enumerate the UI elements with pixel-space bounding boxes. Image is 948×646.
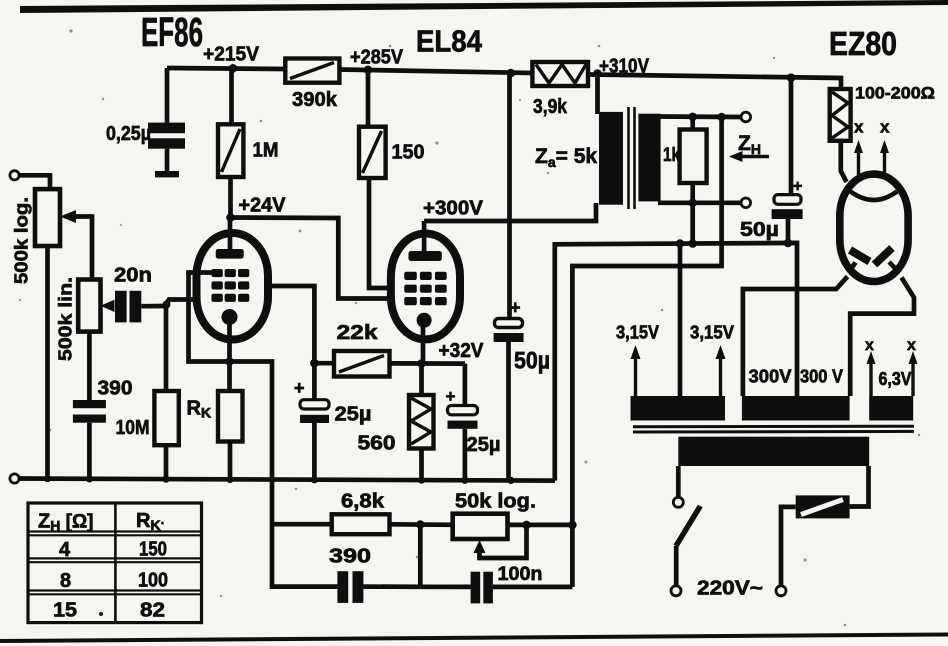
- wire EZ80 right anode to 300V winding: [850, 278, 914, 397]
- svg-text:100n: 100n: [498, 564, 543, 585]
- wire EZ80 left anode to 300V winding: [743, 277, 848, 397]
- capacitor 0,25µ: [106, 68, 185, 177]
- svg-text:3,9k: 3,9k: [533, 96, 568, 118]
- wire 20n to EF86 grid1: [141, 300, 200, 307]
- speaker terminal lower: [741, 198, 751, 208]
- svg-text:25µ: 25µ: [467, 434, 501, 456]
- resistor 22k: [314, 322, 465, 377]
- mains transformer heater winding 2x3,15V: [631, 396, 726, 421]
- resistor 150 (EL84 g2): [359, 70, 425, 178]
- resistor 100-200 ohm (EZ80 surge): [830, 84, 935, 183]
- svg-text:220V~: 220V~: [697, 578, 763, 600]
- svg-text:+300V: +300V: [423, 198, 484, 220]
- node 50µ return on ground bus: [784, 239, 793, 248]
- svg-text:x: x: [880, 118, 890, 137]
- tube EL84 anode plate: [409, 251, 442, 261]
- mains transformer 6,3V winding: [869, 396, 913, 421]
- svg-text:150: 150: [392, 142, 425, 164]
- svg-text:+215V: +215V: [203, 44, 260, 66]
- tube EZ80 envelope: [840, 174, 908, 281]
- wire 150 to EL84 grid2: [369, 178, 392, 288]
- svg-text:3,15V: 3,15V: [690, 323, 734, 343]
- wire primary to mains switch: [676, 466, 681, 497]
- node heater CT on ground bus: [676, 239, 685, 248]
- wire heater centre tap: [678, 244, 683, 396]
- wire ground bus: [555, 243, 797, 481]
- node 50µ on +285V rail: [507, 69, 516, 78]
- junction dots on chassis rail: [44, 475, 515, 484]
- svg-text:+: +: [294, 378, 305, 398]
- svg-text:Za= 5k: Za= 5k: [535, 145, 597, 170]
- wire EF86 anode lead: [228, 217, 233, 251]
- svg-text:+310V: +310V: [599, 56, 650, 78]
- resistor 1M: [218, 68, 279, 217]
- svg-text:390k: 390k: [292, 89, 338, 111]
- node +285V: [364, 66, 373, 75]
- svg-text:500k log.: 500k log.: [11, 197, 32, 284]
- svg-text:560: 560: [358, 433, 396, 455]
- resistor RK (EF86 cathode): [187, 391, 243, 480]
- wire NFB branch to 6,8k: [272, 522, 332, 527]
- wire 10M top lead: [164, 306, 169, 391]
- tube EL84 envelope: [391, 234, 460, 340]
- node grid1 / 10M junction: [163, 301, 171, 309]
- 6,3V arrow left with x: [865, 337, 876, 396]
- wire EL84 anode to output transformer primary: [424, 203, 596, 221]
- wire 50k right to NFB line: [508, 523, 573, 528]
- capacitor 25µ (EL84 cathode): [446, 364, 501, 481]
- svg-text:x: x: [854, 118, 864, 137]
- table column divider: [114, 503, 117, 623]
- svg-text:390: 390: [329, 546, 371, 568]
- svg-text:22k: 22k: [337, 322, 379, 344]
- svg-text:150: 150: [139, 539, 167, 561]
- svg-text:+: +: [793, 178, 802, 195]
- svg-text:100-200Ω: 100-200Ω: [855, 84, 935, 103]
- fuse: [796, 495, 850, 518]
- node 1k top: [688, 113, 697, 122]
- tube EZ80 right anode: [875, 248, 900, 273]
- resistor 3,9k: [532, 62, 588, 118]
- svg-text:x: x: [865, 337, 874, 354]
- svg-text:300 V: 300 V: [800, 366, 844, 387]
- tube EL84 cathode: [417, 313, 432, 328]
- node EL84 cathode / 22k: [417, 359, 426, 368]
- OT core lines: [627, 107, 630, 209]
- capacitor 20n: [114, 265, 152, 323]
- wire OT secondary bottom to speaker terminal: [658, 200, 742, 205]
- node NFB takeoff: [717, 113, 726, 122]
- wire HT rail +285V segment: [339, 70, 533, 74]
- svg-text:6,3V: 6,3V: [879, 369, 912, 389]
- node NFB / 50k: [568, 521, 577, 530]
- mains transformer primary winding: [678, 437, 869, 466]
- node +24V: [226, 213, 235, 222]
- wire EF86 screen lead: [264, 286, 314, 363]
- tube EF86 envelope: [197, 233, 269, 340]
- wire NFB to EF86 cathode: [230, 362, 338, 587]
- svg-text:500k lin.: 500k lin.: [55, 277, 76, 361]
- tube EL84 grid dashes: [404, 272, 446, 305]
- node OT primary top: [593, 69, 602, 78]
- svg-text:300V: 300V: [749, 366, 793, 387]
- node EF86 screen / 22k / 25µ: [310, 359, 319, 368]
- svg-text:50k log.: 50k log.: [455, 491, 536, 513]
- wire OT secondary top to speaker terminal: [658, 114, 742, 119]
- svg-text:+24V: +24V: [239, 195, 287, 217]
- svg-text:EF86: EF86: [141, 9, 203, 55]
- node 6,8k / 50k junction: [416, 520, 425, 529]
- wire EL84 cathode lead: [422, 327, 424, 395]
- resistor 10M: [116, 391, 179, 479]
- tube EF86 grid dashes: [212, 269, 250, 302]
- resistor 1k (across secondary): [663, 117, 707, 203]
- 3,15V arrow right: [690, 323, 734, 397]
- tube EF86 cathode: [222, 309, 238, 325]
- svg-text:390: 390: [98, 378, 133, 400]
- svg-text:6,8k: 6,8k: [341, 491, 385, 513]
- potentiometer 500k log: [11, 189, 93, 284]
- svg-text:1k: 1k: [663, 145, 680, 166]
- svg-text:10M: 10M: [116, 417, 150, 439]
- capacitor 390 (input): [73, 332, 133, 479]
- wire EF86 anode to EL84 grid1: [231, 218, 393, 299]
- svg-text:25µ: 25µ: [335, 404, 372, 426]
- potentiometer 50k log: [453, 491, 536, 559]
- svg-text:1M: 1M: [253, 140, 279, 162]
- svg-text:+: +: [510, 298, 521, 318]
- OT secondary winding bar: [638, 114, 660, 202]
- wire primary to fuse: [850, 466, 869, 507]
- mains terminal right: [776, 586, 786, 596]
- svg-text:20n: 20n: [114, 265, 152, 287]
- capacitor 390 (NFB): [329, 546, 420, 603]
- svg-text:82: 82: [140, 600, 165, 622]
- capacitor 50µ (+310V reservoir): [740, 78, 803, 243]
- label ZH with arrow: [729, 132, 769, 162]
- wire fuse to mains terminal: [781, 507, 796, 586]
- table row lines (doubled): [28, 530, 202, 532]
- node +215V: [229, 64, 238, 73]
- wire input to volume pot: [20, 175, 51, 189]
- input terminal lower: [10, 474, 19, 483]
- svg-text:50µ: 50µ: [740, 219, 779, 241]
- tube EF86 anode plate: [216, 249, 244, 259]
- tube EZ80 cathode arc: [851, 192, 898, 201]
- wire 390 cap up to 6,8k node: [418, 525, 423, 587]
- 6,3V arrow right with x: [907, 337, 918, 396]
- wire NFB from secondary down to tone network: [572, 117, 721, 587]
- wire EL84 anode lead: [422, 221, 427, 253]
- output transformer Za=5k: [535, 107, 661, 209]
- mains transformer HT winding 2x300V: [742, 396, 850, 421]
- svg-text:+285V: +285V: [350, 47, 404, 69]
- tube EZ80 left anode: [849, 250, 870, 273]
- svg-text:+: +: [446, 387, 456, 406]
- node 1k return on ground bus: [688, 239, 697, 248]
- wire OT primary top to +310V rail: [595, 74, 600, 115]
- resistor 6,8k: [332, 491, 453, 535]
- svg-text:ZH [Ω]: ZH [Ω]: [38, 511, 94, 534]
- node EF86 cathode: [225, 357, 234, 366]
- 3,15V arrow left: [616, 323, 659, 397]
- wire HT rail +310V segment: [588, 75, 841, 90]
- resistor 390k: [285, 59, 339, 112]
- wire HT rail +215V segment: [167, 68, 286, 69]
- svg-text:4: 4: [59, 539, 71, 561]
- svg-text:8: 8: [60, 570, 71, 592]
- wire 500k log bottom to chassis rail: [45, 246, 50, 479]
- svg-text:RK: RK: [187, 398, 212, 421]
- wire 1k bottom to ground bus: [690, 203, 695, 244]
- svg-text:15: 15: [53, 600, 77, 622]
- capacitor 25µ (EF86 screen): [294, 363, 372, 480]
- svg-text:50µ: 50µ: [514, 348, 550, 375]
- input terminal upper: [10, 171, 19, 180]
- svg-text:+32V: +32V: [439, 340, 485, 362]
- svg-text:EL84: EL84: [416, 24, 483, 59]
- speaker terminal upper: [741, 112, 751, 122]
- table ZH/RK outer frame: [28, 503, 202, 623]
- wire EF86 suppressor to cathode loop: [189, 273, 231, 362]
- capacitor 100n: [420, 564, 572, 603]
- resistor 560 (EL84 cathode): [358, 395, 434, 480]
- mains transformer core: [633, 426, 914, 432]
- svg-text:EZ80: EZ80: [829, 25, 897, 62]
- capacitor 50µ (+285V reservoir): [494, 73, 550, 480]
- node 50k wiper tie: [522, 521, 531, 530]
- svg-text:RK.: RK.: [136, 510, 164, 533]
- wire chassis rail: [15, 479, 555, 481]
- node 1k bottom: [688, 199, 697, 208]
- OT primary winding bar: [599, 112, 623, 205]
- svg-text:3,15V: 3,15V: [616, 323, 659, 343]
- svg-text:100: 100: [138, 570, 168, 592]
- wire EF86 cathode lead: [227, 323, 232, 391]
- node 50µ on +310V rail: [787, 73, 796, 82]
- EZ80 heater leads with x marks: [854, 118, 890, 179]
- potentiometer 500k lin: [55, 277, 115, 361]
- mains switch: [671, 497, 700, 596]
- svg-text:x: x: [907, 337, 916, 354]
- svg-text:0,25µ: 0,25µ: [106, 123, 151, 145]
